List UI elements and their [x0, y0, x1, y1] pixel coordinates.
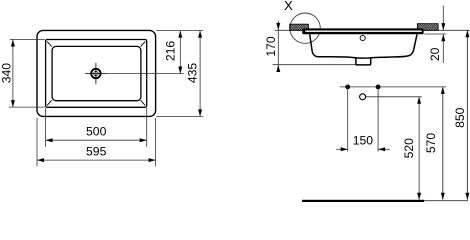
extension line bottom of bowl (340) [9, 106, 45, 108]
dimension 570 line [441, 87, 445, 200]
svg-text:150: 150 [353, 133, 374, 147]
extension line left (150) [347, 85, 349, 152]
overflow hole [360, 35, 365, 40]
extension line top right (216/435) [156, 30, 203, 32]
bowl corner chamfer mark BL [47, 100, 52, 105]
detail circle X [290, 13, 320, 43]
svg-text:570: 570 [424, 133, 438, 154]
countertop underside line [275, 29, 470, 31]
dimension 850 line [465, 30, 469, 200]
extension line left (500) [45, 108, 47, 147]
basin bowl top edge rect [46, 40, 147, 108]
dimension 500 line [46, 138, 147, 142]
basin rim slab [302, 28, 423, 34]
bowl bottom rect [52, 46, 141, 100]
drain crosshair [85, 63, 106, 84]
svg-text:170: 170 [264, 36, 278, 57]
svg-text:595: 595 [86, 144, 107, 158]
svg-text:850: 850 [453, 107, 467, 128]
fixing hole dot right [376, 85, 381, 90]
svg-text:216: 216 [164, 41, 178, 62]
extension line bottom right (435) [156, 115, 203, 117]
countertop hatch left [290, 24, 309, 30]
dimension 520 line [417, 97, 421, 200]
fixing holes line [340, 86, 446, 88]
basin rim slot [305, 31, 421, 32]
dimension 595 line [37, 158, 156, 162]
dimension 435 line [198, 31, 202, 117]
drain boss [356, 58, 371, 65]
svg-text:435: 435 [186, 63, 200, 84]
basin body outline [310, 34, 417, 58]
svg-text:X: X [284, 0, 293, 13]
extension line rim bottom (20) [424, 33, 446, 35]
drain level line [366, 96, 422, 98]
svg-text:500: 500 [86, 125, 107, 139]
svg-text:340: 340 [0, 63, 14, 84]
dimension 150 right tail [378, 147, 390, 151]
svg-text:520: 520 [402, 138, 416, 159]
countertop hatch right [417, 24, 438, 31]
dimension 150 left tail [336, 147, 347, 151]
extension line right (150) [377, 85, 379, 152]
basin outer rim rect [37, 30, 156, 116]
bowl corner chamfer mark TR [141, 41, 146, 46]
drain open circle [360, 94, 366, 100]
floor line thick [302, 200, 424, 203]
extension line right (500) [146, 108, 148, 147]
dimension 340 line [11, 40, 15, 108]
extension line top of bowl (340) [10, 39, 45, 41]
dimension 216 line [178, 31, 182, 74]
extension line from drain centre (216) [107, 73, 184, 75]
svg-text:20: 20 [428, 47, 442, 61]
extension line left (595) [36, 118, 38, 166]
extension line basin lowest point (170) [273, 64, 356, 66]
dimension 20 upper tail [441, 6, 445, 31]
dimension 170 line [276, 21, 280, 72]
floor line thin [424, 200, 468, 202]
dimension 20 lower tail [441, 34, 445, 63]
bowl corner chamfer mark TL [47, 41, 52, 46]
bowl corner chamfer mark BR [141, 100, 146, 105]
fixing hole dot left [345, 85, 350, 90]
extension line right (595) [155, 118, 157, 166]
